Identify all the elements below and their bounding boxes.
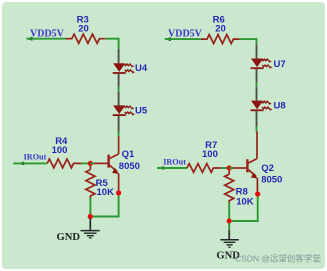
svg-text:U5: U5 (135, 106, 148, 117)
resistor R5 (86, 166, 95, 198)
LED U7 (251, 44, 273, 82)
wire U5 to Q1 collector (118, 132, 120, 137)
resistor R8 (225, 171, 234, 203)
svg-text:10K: 10K (97, 187, 115, 198)
node ground junction (right) (227, 218, 232, 223)
wire IROut to R4 (13, 162, 47, 164)
svg-text:VDD5V: VDD5V (30, 28, 65, 39)
svg-text:20: 20 (215, 24, 226, 35)
ground (right) (216, 223, 240, 262)
node base junction (right) (227, 165, 232, 170)
svg-text:IROut: IROut (163, 157, 186, 166)
svg-text:CSDN @远望创客学堂: CSDN @远望创客学堂 (235, 252, 321, 263)
svg-text:8050: 8050 (261, 175, 282, 186)
terminal VDD5V (right) (165, 28, 203, 41)
resistor R3 (66, 34, 105, 43)
wire R6 to U7 column (239, 39, 256, 44)
wire U8 to Q2 collector (256, 126, 258, 132)
wire node to Q1 base (90, 162, 94, 164)
svg-text:100: 100 (202, 149, 218, 160)
svg-text:IROut: IROut (24, 153, 47, 162)
wire emitter down and left to ground rail (93, 196, 119, 217)
wire VDD5V to R6 (165, 38, 201, 40)
LED U8 (251, 87, 273, 126)
svg-text:10K: 10K (236, 197, 254, 208)
svg-text:U8: U8 (274, 101, 286, 112)
resistor R7 (187, 164, 221, 173)
node base junction (88, 161, 93, 166)
svg-text:U7: U7 (274, 59, 286, 70)
svg-text:Q2: Q2 (261, 163, 274, 174)
svg-text:20: 20 (78, 24, 89, 35)
transistor Q1 (94, 136, 119, 190)
wire VDD5V to R3 (26, 38, 66, 40)
node emitter junction (116, 190, 121, 195)
svg-text:100: 100 (52, 145, 68, 156)
ground (left) (57, 219, 100, 244)
terminal IROut (right) (161, 157, 186, 169)
resistor R4 (47, 159, 81, 168)
node emitter junction (right) (255, 191, 260, 196)
wire R5 to ground node (89, 198, 91, 217)
svg-text:U4: U4 (135, 63, 148, 74)
node ground junction (88, 214, 93, 219)
wire emitter down and left to ground rail (right) (232, 197, 258, 221)
terminal IROut (left) (21, 153, 46, 165)
wire R4 to base node (81, 162, 90, 164)
transistor Q2 (233, 132, 258, 192)
wire IROut to R7 (157, 167, 187, 169)
svg-text:Q1: Q1 (122, 149, 135, 160)
wire R8 to ground node (right) (228, 202, 230, 221)
wire node to Q2 base (229, 167, 233, 169)
wire R7 to base node (221, 167, 229, 169)
wire between U7 and U8 (256, 83, 258, 88)
svg-text:8050: 8050 (119, 161, 140, 172)
wire R3 to U4 column (105, 39, 118, 49)
svg-text:VDD5V: VDD5V (168, 28, 203, 39)
terminal VDD5V (left) (26, 28, 64, 40)
wire between U4 and U5 (118, 87, 120, 92)
svg-text:GND: GND (57, 232, 81, 243)
LED U5 (113, 92, 135, 132)
LED U4 (113, 49, 135, 87)
resistor R6 (201, 35, 239, 44)
